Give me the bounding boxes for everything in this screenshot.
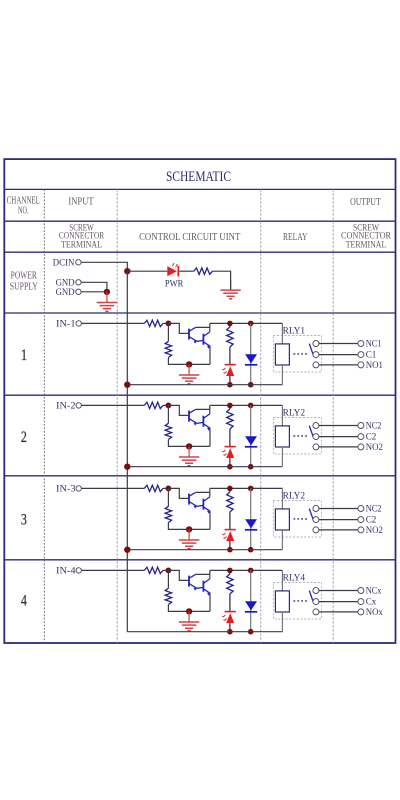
junction: bottom rail / diode branch (channel 4) bbox=[248, 629, 254, 635]
mechanical link (coil to contact arm, channel 4) bbox=[294, 600, 308, 602]
diode (channel 3 flyback) bbox=[245, 519, 257, 530]
relay contact NO (channel 3) bbox=[313, 527, 319, 533]
transistor Q4a (NPN, darlington first) bbox=[189, 574, 197, 590]
junction: emitter/ground node (channel 3) bbox=[186, 526, 192, 532]
wire: collector rail (channel 2) bbox=[210, 404, 283, 406]
wire: IN-2 to input resistor bbox=[82, 404, 145, 406]
wire: resistor to LED (channel 4) bbox=[229, 594, 231, 611]
wire: diode branch vertical (channel 2) bbox=[250, 405, 252, 466]
junction: bus / bottom rail (channel 2) bbox=[124, 464, 130, 470]
wire: rail to LED resistor (channel 4) bbox=[229, 570, 231, 574]
wire: contact C to output terminal (channel 2) bbox=[319, 436, 358, 438]
resistor (channel 2 pull-down) bbox=[165, 423, 171, 439]
wire: rail to relay coil (channel 1) bbox=[281, 323, 283, 344]
terminal NC2 bbox=[358, 421, 382, 432]
svg-text:IN-2: IN-2 bbox=[56, 401, 76, 412]
svg-text:POWER: POWER bbox=[11, 270, 38, 281]
relay RLY2 dashed outline (channel 2) bbox=[273, 418, 321, 455]
wire: relay coil return (channel 3) bbox=[281, 530, 283, 550]
transistor Q4b (NPN, darlington second) bbox=[197, 579, 211, 596]
svg-text:TERMINAL: TERMINAL bbox=[346, 239, 387, 249]
transistor Q1a (NPN, darlington first) bbox=[189, 327, 197, 343]
junction: rail / diode branch (channel 4) bbox=[248, 568, 254, 574]
wire: rail to LED resistor (channel 3) bbox=[229, 488, 231, 492]
wire: IN-1 to input resistor bbox=[82, 322, 145, 324]
svg-text:2: 2 bbox=[21, 429, 27, 446]
junction: emitter/ground node (channel 4) bbox=[186, 608, 192, 614]
wire: contact C to output terminal (channel 3) bbox=[319, 519, 358, 521]
wire: node A down to pull-down resistor bbox=[167, 405, 169, 423]
resistor (channel 1 LED series) bbox=[227, 327, 233, 347]
relay RLY1 dashed outline (channel 1) bbox=[273, 336, 321, 373]
wire: contact NC to output terminal (channel 2) bbox=[319, 425, 358, 427]
relay coil RLY2 bbox=[275, 509, 289, 530]
wire: IN-3 to input resistor bbox=[82, 487, 145, 489]
resistor (channel 3 pull-down) bbox=[165, 506, 171, 522]
header CHANNEL NO. bbox=[7, 196, 40, 217]
wire: resistor to LED (channel 2) bbox=[229, 429, 231, 446]
wire: pull-down resistor to emitter node (channel 1) bbox=[168, 358, 209, 365]
contact arm (channel 4) bbox=[309, 591, 313, 602]
terminal NOx bbox=[358, 607, 383, 618]
wire: pull-down resistor to emitter node (channel 4) bbox=[168, 605, 209, 612]
wire: Q2a/Q2b collectors to rail (channel 2) bbox=[196, 405, 210, 414]
wire: Q3b emitter down (channel 3) bbox=[209, 511, 211, 529]
terminal GND (upper) bbox=[56, 278, 82, 289]
svg-text:NO2: NO2 bbox=[366, 442, 383, 453]
transistor Q1b (NPN, darlington second) bbox=[197, 332, 211, 349]
resistor (channel 2 input series) bbox=[144, 402, 163, 408]
resistor (channel 2 LED series) bbox=[227, 409, 233, 429]
relay contact C (channel 2) bbox=[313, 434, 319, 440]
relay contact NO (channel 4) bbox=[313, 609, 319, 615]
wire: resistor to power ground bbox=[212, 271, 230, 290]
junction: bus / bottom rail (channel 1) bbox=[124, 382, 130, 388]
column divider: relay / output bbox=[332, 189, 334, 643]
junction: rail / LED branch (channel 1) bbox=[227, 321, 233, 327]
wire: IN-4 to input resistor bbox=[82, 569, 145, 571]
terminal C2 bbox=[358, 515, 377, 526]
junction: emitter/ground node (channel 2) bbox=[186, 443, 192, 449]
column divider: input / control circuit bbox=[116, 189, 118, 643]
power bus (DCIN rail, vertical) bbox=[126, 271, 128, 632]
junction: bottom rail / LED branch (channel 4) bbox=[227, 629, 233, 635]
wire: Q3a/Q3b collectors to rail (channel 3) bbox=[196, 488, 210, 497]
resistor (channel 1 pull-down) bbox=[165, 341, 171, 357]
svg-text:CONTROL CIRCUIT UINT: CONTROL CIRCUIT UINT bbox=[139, 232, 241, 243]
ground (GND terminals) bbox=[97, 292, 117, 311]
table outer border bbox=[4, 159, 395, 643]
junction: GND node bbox=[104, 289, 110, 295]
wire: contact NC to output terminal (channel 4) bbox=[319, 590, 358, 592]
table row line 7 bbox=[4, 559, 395, 561]
wire: bus to PWR LED bbox=[127, 270, 167, 272]
wire: DCIN to power bus bbox=[81, 262, 127, 271]
transistor Q3a (NPN, darlington first) bbox=[189, 492, 197, 508]
relay contact NC (channel 4) bbox=[313, 588, 319, 594]
wire: pull-down resistor to emitter node (channel 3) bbox=[168, 523, 209, 530]
ground (channel 4) bbox=[179, 611, 199, 630]
wire: GND terminals join bbox=[81, 282, 107, 292]
wire: contact NO to output terminal (channel 1) bbox=[319, 364, 358, 366]
svg-text:SUPPLY: SUPPLY bbox=[10, 282, 38, 293]
svg-text:NO2: NO2 bbox=[366, 525, 383, 536]
terminal Cx bbox=[358, 597, 377, 608]
junction: DCIN / bus node bbox=[124, 268, 130, 274]
relay coil RLY1 bbox=[275, 344, 289, 365]
LED (channel 2 status) bbox=[222, 447, 236, 458]
junction: rail / diode branch (channel 1) bbox=[248, 321, 254, 327]
wire: rail to LED resistor (channel 1) bbox=[229, 323, 231, 327]
ground (power rail) bbox=[220, 280, 240, 299]
wire: contact NC to output terminal (channel 1) bbox=[319, 343, 358, 345]
wire: PWR LED to resistor bbox=[179, 270, 194, 272]
junction: node A (channel 1) bbox=[166, 321, 172, 327]
terminal C2 bbox=[358, 432, 377, 443]
transistor Q3b (NPN, darlington second) bbox=[197, 497, 211, 514]
relay coil RLY4 bbox=[275, 591, 289, 612]
wire: rail to relay coil (channel 2) bbox=[281, 405, 283, 426]
junction: rail / LED branch (channel 3) bbox=[227, 486, 233, 492]
wire: Q4b emitter down (channel 4) bbox=[209, 593, 211, 611]
wire: relay coil return (channel 2) bbox=[281, 447, 283, 467]
relay contact NC (channel 3) bbox=[313, 506, 319, 512]
table row line 4 bbox=[4, 312, 395, 314]
wire: bottom +V return rail (channel 3) bbox=[127, 549, 282, 551]
terminal DCIN bbox=[53, 258, 81, 269]
table row line 3 bbox=[4, 251, 395, 253]
junction: bottom rail / LED branch (channel 1) bbox=[227, 382, 233, 388]
terminal NO2 bbox=[358, 525, 383, 536]
mechanical link (coil to contact arm, channel 3) bbox=[294, 518, 308, 520]
relay contact C (channel 4) bbox=[313, 599, 319, 605]
terminal IN-3 bbox=[56, 484, 81, 495]
terminal C1 bbox=[358, 350, 377, 361]
relay contact C (channel 3) bbox=[313, 517, 319, 523]
wire: Q4a/Q4b collectors to rail (channel 4) bbox=[196, 570, 210, 579]
junction: bottom rail / diode branch (channel 3) bbox=[248, 547, 254, 553]
wire: contact C to output terminal (channel 1) bbox=[319, 354, 358, 356]
wire: rail to relay coil (channel 4) bbox=[281, 570, 283, 591]
terminal NC2 bbox=[358, 504, 382, 515]
table row line 5 bbox=[4, 394, 395, 396]
svg-text:INPUT: INPUT bbox=[68, 197, 94, 208]
svg-text:SCHEMATIC: SCHEMATIC bbox=[166, 168, 231, 185]
svg-text:RLY2: RLY2 bbox=[283, 409, 306, 419]
resistor (channel 1 input series) bbox=[144, 320, 163, 326]
wire: node A to Q2a base bbox=[168, 405, 188, 415]
wire: collector rail (channel 4) bbox=[210, 569, 283, 571]
wire: resistor to node A (channel 2) bbox=[163, 404, 168, 406]
ground (channel 1) bbox=[179, 364, 199, 383]
wire: diode branch vertical (channel 1) bbox=[250, 323, 252, 384]
junction: bottom rail / diode branch (channel 1) bbox=[248, 382, 254, 388]
row label POWER SUPPLY bbox=[10, 270, 38, 292]
svg-text:TERMINAL: TERMINAL bbox=[61, 239, 102, 249]
contact arm (channel 2) bbox=[309, 426, 313, 437]
terminal IN-1 bbox=[56, 319, 81, 330]
svg-text:4: 4 bbox=[21, 593, 27, 610]
svg-text:DCIN: DCIN bbox=[53, 258, 75, 269]
table row line 2 bbox=[4, 220, 395, 222]
wire: LED to bottom rail (channel 4) bbox=[229, 623, 231, 632]
wire: contact NO to output terminal (channel 3) bbox=[319, 529, 358, 531]
svg-text:NO.: NO. bbox=[18, 205, 29, 216]
junction: bottom rail / LED branch (channel 3) bbox=[227, 547, 233, 553]
svg-text:NC1: NC1 bbox=[366, 339, 382, 350]
contact arm (channel 1) bbox=[309, 344, 313, 355]
wire: contact NO to output terminal (channel 2) bbox=[319, 446, 358, 448]
LED (channel 1 status) bbox=[222, 365, 236, 376]
svg-text:NO1: NO1 bbox=[366, 360, 383, 371]
wire: resistor to node A (channel 1) bbox=[163, 322, 168, 324]
mechanical link (coil to contact arm, channel 2) bbox=[294, 435, 308, 437]
column divider: control circuit / relay bbox=[260, 189, 262, 643]
wire: bottom +V return rail (channel 2) bbox=[127, 466, 282, 468]
wire: node A down to pull-down resistor bbox=[167, 570, 169, 588]
svg-text:RLY1: RLY1 bbox=[283, 327, 306, 337]
LED PWR bbox=[167, 263, 178, 276]
terminal NC1 bbox=[358, 339, 382, 350]
svg-text:RLY4: RLY4 bbox=[283, 574, 306, 584]
junction: emitter/ground node (channel 1) bbox=[186, 361, 192, 367]
wire: node A down to pull-down resistor bbox=[167, 488, 169, 506]
svg-text:NCx: NCx bbox=[366, 586, 382, 597]
wire: bottom +V return rail (channel 4) bbox=[127, 631, 282, 633]
svg-text:IN-4: IN-4 bbox=[56, 566, 76, 577]
svg-text:1: 1 bbox=[21, 347, 27, 364]
wire: rail to relay coil (channel 3) bbox=[281, 488, 283, 509]
wire: resistor to node A (channel 3) bbox=[163, 487, 168, 489]
wire: Q1a/Q1b collectors to rail (channel 1) bbox=[196, 323, 210, 332]
diode (channel 4 flyback) bbox=[245, 601, 257, 612]
resistor (PWR series) bbox=[194, 268, 213, 274]
wire: contact NO to output terminal (channel 4) bbox=[319, 611, 358, 613]
junction: rail / diode branch (channel 2) bbox=[248, 403, 254, 409]
junction: node A (channel 2) bbox=[166, 403, 172, 409]
diode (channel 1 flyback) bbox=[245, 354, 257, 365]
relay contact NC (channel 2) bbox=[313, 423, 319, 429]
header SCREW CONNECTOR TERMINAL (output) bbox=[341, 222, 392, 249]
junction: rail / diode branch (channel 3) bbox=[248, 486, 254, 492]
wire: LED to bottom rail (channel 1) bbox=[229, 376, 231, 385]
relay contact NO (channel 2) bbox=[313, 444, 319, 450]
wire: node A down to pull-down resistor bbox=[167, 323, 169, 341]
resistor (channel 3 LED series) bbox=[227, 492, 233, 512]
wire: node A to Q3a base bbox=[168, 488, 188, 498]
relay contact C (channel 1) bbox=[313, 352, 319, 358]
relay contact NC (channel 1) bbox=[313, 341, 319, 347]
wire: pull-down resistor to emitter node (channel 2) bbox=[168, 440, 209, 447]
ground (channel 3) bbox=[179, 529, 199, 548]
terminal NO1 bbox=[358, 360, 383, 371]
wire: rail to LED resistor (channel 2) bbox=[229, 405, 231, 409]
wire: diode branch vertical (channel 4) bbox=[250, 570, 252, 631]
table row line 1 bbox=[4, 188, 395, 190]
resistor (channel 4 pull-down) bbox=[165, 588, 171, 604]
wire: node A to Q4a base bbox=[168, 570, 188, 580]
wire: resistor to node A (channel 4) bbox=[163, 569, 168, 571]
LED (channel 4 status) bbox=[222, 612, 236, 623]
terminal NO2 bbox=[358, 442, 383, 453]
wire: resistor to LED (channel 1) bbox=[229, 347, 231, 364]
relay coil RLY2 bbox=[275, 426, 289, 447]
wire: Q1b emitter down (channel 1) bbox=[209, 346, 211, 364]
terminal IN-4 bbox=[56, 566, 81, 577]
junction: rail / LED branch (channel 2) bbox=[227, 403, 233, 409]
terminal GND (lower) bbox=[56, 287, 82, 298]
wire: node A to Q1a base bbox=[168, 323, 188, 333]
wire: collector rail (channel 3) bbox=[210, 487, 283, 489]
resistor (channel 4 input series) bbox=[144, 567, 163, 573]
ground (channel 2) bbox=[179, 446, 199, 465]
svg-text:IN-1: IN-1 bbox=[56, 319, 76, 330]
svg-text:3: 3 bbox=[21, 512, 27, 529]
junction: bottom rail / diode branch (channel 2) bbox=[248, 464, 254, 470]
wire: collector rail (channel 1) bbox=[210, 322, 283, 324]
wire: relay coil return (channel 4) bbox=[281, 612, 283, 632]
svg-text:NC2: NC2 bbox=[366, 504, 382, 515]
relay RLY4 dashed outline (channel 4) bbox=[273, 583, 321, 620]
wire: LED to bottom rail (channel 2) bbox=[229, 458, 231, 467]
header SCREW CONNECTOR TERMINAL (input) bbox=[59, 222, 105, 249]
transistor Q2a (NPN, darlington first) bbox=[189, 409, 197, 425]
junction: bus / bottom rail (channel 3) bbox=[124, 547, 130, 553]
junction: node A (channel 4) bbox=[166, 568, 172, 574]
relay contact NO (channel 1) bbox=[313, 362, 319, 368]
wire: LED to bottom rail (channel 3) bbox=[229, 541, 231, 550]
table row line 6 bbox=[4, 475, 395, 477]
svg-text:IN-3: IN-3 bbox=[56, 484, 76, 495]
terminal NCx bbox=[358, 586, 382, 597]
svg-text:NC2: NC2 bbox=[366, 421, 382, 432]
LED (channel 3 status) bbox=[222, 530, 236, 541]
svg-text:RLY2: RLY2 bbox=[283, 492, 306, 502]
junction: node A (channel 3) bbox=[166, 486, 172, 492]
wire: diode branch vertical (channel 3) bbox=[250, 488, 252, 549]
wire: Q2b emitter down (channel 2) bbox=[209, 428, 211, 446]
transistor Q2b (NPN, darlington second) bbox=[197, 414, 211, 431]
mechanical link (coil to contact arm, channel 1) bbox=[294, 353, 308, 355]
svg-text:NOx: NOx bbox=[366, 607, 383, 618]
wire: relay coil return (channel 1) bbox=[281, 365, 283, 385]
svg-text:OUTPUT: OUTPUT bbox=[350, 197, 381, 208]
relay RLY2 dashed outline (channel 3) bbox=[273, 501, 321, 538]
terminal IN-2 bbox=[56, 401, 81, 412]
wire: resistor to LED (channel 3) bbox=[229, 512, 231, 529]
svg-text:RELAY: RELAY bbox=[283, 232, 308, 243]
wire: contact NC to output terminal (channel 3) bbox=[319, 508, 358, 510]
svg-text:GND: GND bbox=[56, 287, 75, 298]
contact arm (channel 3) bbox=[309, 509, 313, 520]
wire: contact C to output terminal (channel 4) bbox=[319, 601, 358, 603]
column divider: channel no. / input bbox=[43, 189, 45, 643]
svg-text:PWR: PWR bbox=[165, 279, 184, 290]
resistor (channel 4 LED series) bbox=[227, 574, 233, 594]
resistor (channel 3 input series) bbox=[144, 485, 163, 491]
wire: bottom +V return rail (channel 1) bbox=[127, 384, 282, 386]
diode (channel 2 flyback) bbox=[245, 436, 257, 447]
junction: bottom rail / LED branch (channel 2) bbox=[227, 464, 233, 470]
junction: rail / LED branch (channel 4) bbox=[227, 568, 233, 574]
